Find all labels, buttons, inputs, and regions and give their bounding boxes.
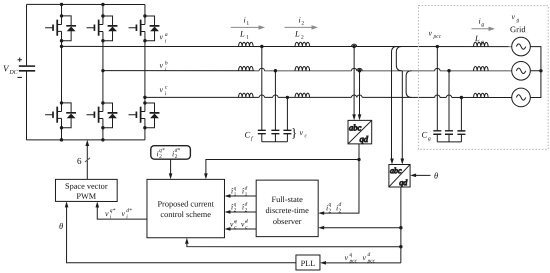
svg-text:2: 2 [175,154,178,160]
svg-text:v: v [121,209,125,218]
diode D1 (anti-parallel) [62,16,72,25]
svg-text:C: C [421,130,427,140]
transistor Q3 (leg c, upper) with diode [129,14,160,42]
wire: Cg branch a [436,45,439,48]
capacitor Cf phase c [283,129,291,131]
svg-text:c: c [165,85,168,91]
svg-text:i: i [165,38,167,44]
block: Full-state discrete-time observer [256,180,318,237]
wire: vpcc sense staircase b-c [406,71,411,98]
diode D5 (anti-parallel) [103,103,113,112]
svg-text:d*: d* [126,208,132,214]
wire: i2qd feedback from block1 to controller top [204,144,361,215]
svg-text:2: 2 [338,208,341,214]
svg-text:θ: θ [434,171,438,181]
label via [160,32,168,45]
wire: vpcc qd to controller bottom [187,242,401,247]
svg-text:2: 2 [234,207,237,213]
source: grid phase c [512,88,531,107]
block: Proposed current control scheme [147,179,225,237]
wire: Cg common bus [437,141,461,143]
svg-text:abc: abc [390,166,402,175]
svg-text:2: 2 [159,154,162,160]
svg-text:q: q [349,252,352,258]
svg-text:qd: qd [359,134,368,144]
wire: Cf branch c [286,96,289,99]
wire hop bumps: phase lines jump over crossing verticals [259,44,452,98]
svg-text:L: L [294,29,300,39]
wire: DC bus bottom rail [26,139,144,141]
wire: vi* output controller to PWM [95,201,147,219]
source: grid phase a [512,37,531,56]
transistor Q1 (leg a, upper) with diode [45,14,76,42]
wire: vpcc sense line b (stub down to block) [401,71,403,160]
label vpccq vpccd [344,252,375,264]
svg-text:c: c [304,133,307,139]
label vic [160,85,168,98]
dashed box: grid model [418,6,548,150]
wire: vpcc sense staircase a-b [396,47,402,71]
label VDC plus [18,58,22,62]
label vpcc [429,29,442,40]
transistor Q2 (leg b, upper) with diode [87,14,118,42]
wire: observer to controller arrow 1 (i1 estimate) [224,194,256,198]
label vib [160,60,168,73]
diode D3 (anti-parallel) [145,16,155,25]
label Cf [244,129,254,142]
svg-text:q: q [234,219,237,224]
wire: i2 sense line phase b [358,69,361,72]
wire: leg a vertical segments [61,4,63,16]
capacitor Cg phase c [457,130,465,132]
block: current reference box i2q* i2d* [151,146,191,160]
svg-text:control scheme: control scheme [160,210,211,219]
wire: Cf common bus [262,141,288,143]
svg-text:c: c [245,225,248,230]
wire: DC bus top rail [27,3,145,5]
inductor Lg phase c [474,93,489,97]
wire: vpcc qd output from block2 down [185,187,403,265]
wire: i2qd to observer right edge [322,160,359,214]
wire: phase a line [62,45,512,47]
svg-text:q*: q* [110,208,116,214]
svg-text:v: v [105,209,109,218]
svg-text:g: g [428,136,431,142]
label ig current arrow [472,27,496,31]
transistor Q6 (leg c, lower) with diode [129,101,160,129]
inductor Lg phase b [474,67,489,71]
svg-text:Grid: Grid [510,24,526,34]
svg-text:a: a [165,32,168,38]
node: bottom rail junction dots [60,138,63,141]
capacitor Cf phase b [271,129,279,131]
svg-text:v: v [160,61,164,70]
svg-text:6: 6 [77,156,82,166]
diode D4 (anti-parallel) [62,103,72,112]
svg-text:q*: q* [159,148,165,154]
block: PLL [296,255,320,270]
block: Space vector PWM [55,179,117,201]
inductor L1 phase b [239,66,254,70]
label i1 current arrow [231,25,265,29]
wire: Cf branch b [274,69,277,72]
svg-text:q: q [234,186,237,191]
wire: 6-signal gate bus arrow from PWM to inverter [77,140,90,180]
svg-text:g: g [481,22,484,28]
wire: vpcc qd to PLL [324,262,401,264]
svg-text:Proposed current: Proposed current [157,199,214,208]
wire: observer to controller arrow 3 (vc estimate) [224,227,256,231]
svg-text:v: v [344,253,348,262]
svg-text:f: f [251,136,254,142]
wire: DC source left branch [26,4,28,65]
svg-text:1: 1 [245,191,248,197]
svg-text:L: L [239,28,245,38]
wire: i2 sense line phase a [352,45,355,48]
current sensor pickup on phase b (i2) [357,68,362,70]
svg-text:i: i [165,67,167,73]
label i2q i2d estimates [231,201,248,213]
label i2 current arrow [285,25,319,29]
svg-text:L: L [474,33,480,43]
source: grid phase b [512,61,531,80]
svg-text:DC: DC [8,70,18,76]
svg-text:d: d [245,201,248,207]
capacitor Cf phase a [258,129,266,131]
inductor Lg phase a [474,42,489,46]
svg-text:d*: d* [175,148,181,154]
svg-text:Space vector: Space vector [65,182,108,191]
inductor L2 phase b [295,66,310,70]
transistor Q5 (leg b, lower) with diode [87,101,118,129]
svg-text:c: c [234,225,237,230]
svg-text:C: C [244,129,250,139]
svg-text:v: v [160,32,164,41]
svg-text:PWM: PWM [76,192,96,201]
label VDC [3,63,19,76]
label L1 [239,28,249,40]
svg-text:v: v [512,12,516,21]
label i1q i1d estimates [231,185,248,197]
wire: Cf branch a [260,45,263,48]
svg-text:}: } [291,125,297,140]
svg-text:b: b [165,60,168,66]
svg-text:g: g [517,17,520,23]
inductor L2 phase c [295,93,310,97]
svg-text:observer: observer [273,217,302,226]
svg-text:v: v [299,128,303,137]
svg-text:pcc: pcc [433,34,442,40]
svg-text:pcc: pcc [366,258,375,264]
wire: phase b line [103,70,512,72]
svg-text:discrete-time: discrete-time [266,206,310,215]
svg-text:d: d [245,218,248,224]
inductor L1 phase c [239,93,254,97]
diode D2 (anti-parallel) [103,16,113,25]
wire: vpcc qd to observer [322,227,400,229]
wire: observer to controller arrow 2 (i2 estimate) [224,210,256,214]
svg-text:i: i [165,91,167,97]
label viq* vid* [105,208,132,220]
label theta input to abc/qd #2 [410,171,438,181]
svg-text:Full-state: Full-state [272,195,304,204]
node: top rail junction dots [60,3,63,6]
label vc with brace [291,125,308,140]
wire: reference arrow into controller [169,159,173,179]
transistor Q4 (leg a, lower) with diode [45,101,76,129]
current sensor pickup on phase a (i2) [351,44,356,46]
svg-text:2: 2 [301,21,304,27]
svg-text:d: d [245,185,248,191]
inductor L1 phase a [239,42,254,46]
label Cg [421,130,431,143]
svg-text:2: 2 [301,35,304,41]
svg-text:abc: abc [349,122,362,132]
wire: leg b vertical segments [102,4,104,15]
inductor L2 phase a [295,42,310,46]
wire: phase c line [145,96,512,98]
svg-text:1: 1 [246,21,249,27]
svg-text:d: d [338,202,341,208]
label vg [512,12,520,23]
block abc/qd #1 [348,120,372,143]
svg-text:q: q [234,202,237,207]
svg-text:1: 1 [246,35,249,41]
svg-text:d: d [367,252,370,258]
wire: Cg branch b [447,69,450,72]
label Lg [474,33,484,45]
svg-text:q: q [328,202,331,208]
svg-text:v: v [429,29,433,38]
svg-text:PLL: PLL [301,259,316,268]
label vcq vcd estimates [230,218,248,230]
wire: theta from PLL to PWM [65,201,296,262]
label i2q i2d (observer input) [326,202,342,215]
diode D6 (anti-parallel) [145,103,155,112]
svg-text:v: v [362,253,366,262]
wire: vpcc sense line a (long vertical) [391,47,397,161]
svg-text:pcc: pcc [348,258,357,264]
capacitor VDC [19,66,35,71]
svg-text:qd: qd [399,178,408,187]
label VDC minus [18,76,22,78]
svg-text:v: v [160,85,164,94]
svg-text:2: 2 [328,208,331,214]
capacitor Cg phase a [433,130,441,132]
svg-text:2: 2 [245,207,248,213]
wire: leg c vertical segments [144,4,146,15]
wire: Cg branch c [460,96,463,99]
block abc/qd #2 [389,164,410,187]
svg-text:θ: θ [59,221,63,231]
svg-text:1: 1 [234,191,237,197]
wire: grid neutral bus [530,47,542,98]
label L2 [294,29,304,41]
capacitor Cg phase b [445,130,453,132]
